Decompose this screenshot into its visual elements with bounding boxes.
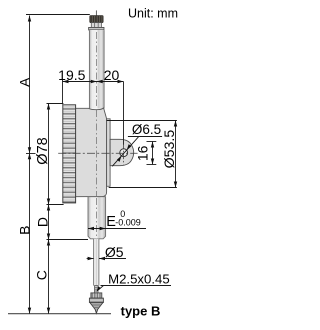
svg-text:D: D [34, 217, 50, 227]
svg-text:-0.009: -0.009 [115, 218, 141, 228]
dim line B [29, 153, 31, 313]
dim O78 top extension [47, 103, 64, 105]
dim D bottom extension [47, 239, 89, 241]
svg-text:Unit: mm: Unit: mm [128, 7, 178, 21]
svg-text:Ø53.5: Ø53.5 [162, 130, 178, 169]
dim line 19.5/20 [63, 81, 124, 83]
baseline surface [8, 313, 111, 315]
dial horizontal centerline [58, 152, 137, 154]
svg-text:Ø78: Ø78 [35, 137, 51, 164]
arrow B top [28, 153, 31, 159]
dim O5 left arrow [87, 258, 94, 260]
arrow D bottom [47, 234, 50, 240]
back band [107, 119, 111, 187]
dim line O53.5 [175, 121, 177, 188]
svg-text:Ø6.5: Ø6.5 [132, 122, 161, 137]
cap flange [89, 27, 104, 30]
arrow O6.5 lower [117, 156, 122, 162]
arrow O5 left [88, 257, 94, 260]
dim O53.5 top extension [107, 120, 177, 122]
dim O5 right leader [99, 258, 126, 260]
dim A top extension [26, 14, 90, 16]
dim 16 bottom extension [147, 164, 157, 166]
O6.5 slant leader [112, 137, 138, 167]
dim 19.5/20 extension line right [123, 82, 125, 145]
arrow 20 right [118, 80, 124, 83]
arrow C bottom [47, 308, 50, 314]
bezel knurled ring [63, 105, 76, 203]
spindle top centerline stub [95, 10, 97, 15]
dim O78 bottom extension [47, 204, 64, 206]
dim line A [29, 16, 31, 154]
A/B boundary tick [26, 153, 36, 155]
dim line C [48, 240, 50, 314]
O6.5 underline leader [128, 136, 162, 138]
M2.5 underline leader [101, 285, 172, 287]
upper rod [89, 30, 104, 109]
dim line 16 [152, 142, 154, 165]
arrow D top [47, 205, 50, 211]
arrow A top [28, 16, 31, 22]
contact point band [89, 298, 103, 302]
M2.5 slant leader [97, 286, 103, 291]
arrow E right [100, 227, 106, 230]
lower stem centerline [96, 198, 98, 238]
arrow O78 bottom [47, 199, 50, 205]
spindle [94, 239, 99, 286]
svg-text:M2.5x0.45: M2.5x0.45 [108, 271, 170, 286]
arrow 20 left [97, 80, 103, 83]
arrow 19.5 right [91, 80, 97, 83]
arrow O5 right [99, 257, 105, 260]
contact point cone [90, 302, 103, 313]
arrow C top [47, 240, 50, 246]
svg-text:C: C [33, 270, 49, 280]
svg-text:B: B [16, 226, 32, 235]
contact point collar [91, 293, 102, 298]
top cap knurled [90, 16, 103, 23]
upper rod centerline [96, 32, 98, 106]
body centerline vertical [96, 110, 98, 196]
svg-text:19.5: 19.5 [58, 67, 85, 83]
arrow M2.5 [97, 286, 101, 291]
mounting lug [110, 139, 134, 165]
dim line O78 [48, 104, 50, 205]
arrow O53.5 bottom [174, 182, 177, 188]
lug hole vertical centerline [122, 144, 124, 165]
arrow 16 bottom [151, 159, 154, 165]
arrow E left [88, 227, 94, 230]
arrow O6.5 upper [127, 144, 132, 150]
lug hole [120, 149, 128, 157]
dim O53.5 bottom extension [109, 187, 177, 189]
dim 19.5/20 extension line left [62, 79, 64, 104]
svg-text:20: 20 [104, 67, 120, 83]
lower stem [88, 197, 106, 239]
svg-text:A: A [16, 77, 32, 87]
svg-text:16: 16 [135, 145, 151, 161]
svg-text:type B: type B [121, 303, 161, 318]
arrow 19.5 left [63, 80, 69, 83]
arrow B bottom [28, 308, 31, 314]
arrow A bottom [28, 147, 31, 153]
dim E line [88, 228, 146, 230]
dim 16 top extension [147, 141, 157, 143]
svg-text:Ø5: Ø5 [105, 244, 124, 260]
arrow O78 top [47, 104, 50, 110]
body case [75, 108, 106, 197]
arrow O53.5 top [174, 121, 177, 127]
arrow 16 top [151, 142, 154, 148]
thread section [95, 286, 99, 293]
dim line D [48, 205, 50, 240]
cap neck [91, 23, 101, 28]
